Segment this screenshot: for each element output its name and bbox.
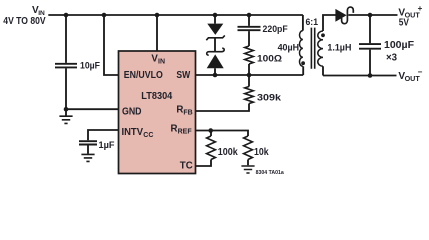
svg-text:R: R	[171, 123, 178, 134]
svg-text:1µF: 1µF	[99, 140, 115, 150]
svg-text:100k: 100k	[218, 147, 239, 158]
svg-text:EN/UVLO: EN/UVLO	[124, 70, 163, 81]
svg-text:5V: 5V	[399, 18, 409, 29]
svg-text:40µH: 40µH	[278, 42, 300, 52]
svg-text:SW: SW	[176, 70, 191, 81]
svg-text:100µF: 100µF	[384, 40, 414, 51]
svg-text:220pF: 220pF	[263, 24, 288, 34]
svg-text:309k: 309k	[257, 93, 282, 104]
svg-text:TC: TC	[180, 160, 193, 171]
svg-text:8304 TA01a: 8304 TA01a	[256, 170, 284, 176]
svg-text:LT8304: LT8304	[141, 91, 173, 102]
svg-text:CC: CC	[143, 132, 153, 139]
svg-text:GND: GND	[122, 107, 142, 118]
svg-text:10k: 10k	[254, 147, 269, 158]
svg-text:100Ω: 100Ω	[257, 54, 283, 64]
svg-text:10µF: 10µF	[80, 60, 100, 70]
svg-text:REF: REF	[178, 128, 193, 135]
svg-text:1.1µH: 1.1µH	[327, 42, 351, 52]
svg-text:FB: FB	[183, 110, 192, 117]
svg-text:×3: ×3	[386, 53, 398, 64]
svg-text:IN: IN	[158, 59, 165, 66]
svg-text:+: +	[418, 4, 423, 13]
svg-text:−: −	[418, 67, 423, 76]
svg-text:INTV: INTV	[122, 127, 144, 138]
svg-text:4V TO 80V: 4V TO 80V	[3, 16, 45, 27]
svg-text:6:1: 6:1	[306, 17, 319, 28]
svg-text:R: R	[176, 105, 183, 116]
